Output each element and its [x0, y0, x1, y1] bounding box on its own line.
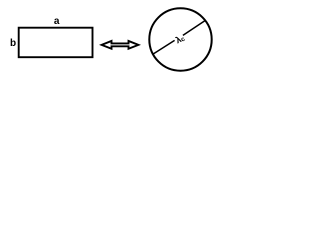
- label lambda-c on chord: [174, 32, 187, 45]
- svg-text:b: b: [10, 38, 16, 49]
- svg-text:a: a: [54, 16, 60, 27]
- circle: [149, 8, 211, 70]
- double-headed arrow (outlined): [102, 41, 139, 49]
- chord line lower-left segment: [153, 40, 175, 54]
- chord line upper-right segment: [183, 20, 206, 35]
- rectangle a x b: [19, 28, 93, 58]
